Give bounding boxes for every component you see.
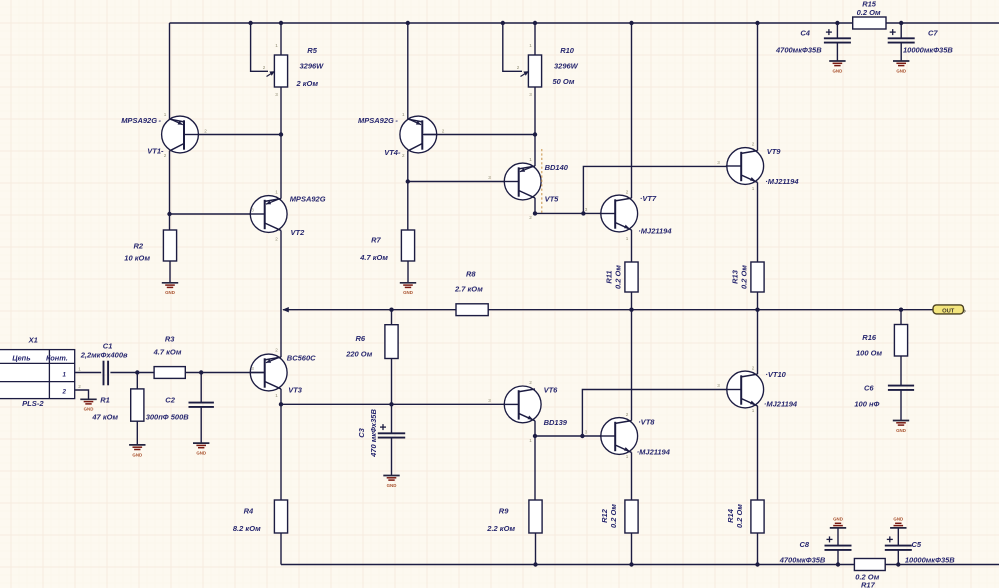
svg-text:470 мкФх35В: 470 мкФх35В bbox=[369, 409, 378, 458]
svg-text:GND: GND bbox=[896, 68, 906, 73]
svg-text:2: 2 bbox=[752, 366, 755, 371]
svg-text:3: 3 bbox=[529, 92, 532, 97]
svg-text:R4: R4 bbox=[244, 507, 254, 516]
label R13 bbox=[731, 265, 749, 289]
svg-text:3: 3 bbox=[585, 430, 588, 435]
svg-text:GND: GND bbox=[833, 68, 843, 73]
svg-text:R3: R3 bbox=[165, 335, 175, 344]
wire C4 to ground bbox=[836, 43, 838, 61]
svg-text:4700мкФ35В: 4700мкФ35В bbox=[775, 46, 822, 55]
junction rail C4 bbox=[835, 21, 839, 25]
svg-text:1: 1 bbox=[402, 112, 405, 117]
capacitor C7 bbox=[888, 29, 915, 42]
ground X1 bbox=[80, 399, 96, 411]
svg-text:OUT: OUT bbox=[942, 308, 955, 314]
svg-text:·MJ21194: ·MJ21194 bbox=[638, 227, 672, 236]
label VT3 bbox=[287, 354, 316, 395]
wire R11 to rail to VT8 bbox=[631, 292, 633, 421]
junction VT6 emitter bbox=[533, 434, 537, 438]
svg-text:1: 1 bbox=[626, 236, 629, 241]
wire branch up to VT9 base bbox=[583, 166, 741, 213]
svg-text:VT4-: VT4- bbox=[384, 148, 401, 157]
ground C5 bbox=[890, 517, 906, 528]
svg-text:C2: C2 bbox=[165, 396, 175, 405]
svg-text:3: 3 bbox=[717, 383, 720, 388]
ground R2 bbox=[162, 283, 178, 295]
svg-text:2.2 кОм: 2.2 кОм bbox=[486, 524, 515, 533]
svg-text:MPSA92G -: MPSA92G - bbox=[358, 116, 398, 125]
svg-text:R2: R2 bbox=[134, 242, 144, 251]
svg-text:4.7 кОм: 4.7 кОм bbox=[359, 253, 388, 262]
junction rail R10 bbox=[533, 21, 537, 25]
label C4 bbox=[775, 29, 822, 55]
svg-text:GND: GND bbox=[196, 451, 206, 456]
wire node to C3 bbox=[391, 404, 393, 433]
svg-text:3296W: 3296W bbox=[300, 62, 325, 71]
wire C8 to rail bbox=[837, 550, 839, 565]
wire VT9 collector to rail bbox=[757, 23, 759, 151]
transistor VT1 bbox=[162, 116, 200, 153]
svg-text:2 кОм: 2 кОм bbox=[296, 79, 319, 88]
svg-text:1: 1 bbox=[164, 112, 167, 117]
wire R1 to ground bbox=[136, 421, 138, 444]
label VT4 bbox=[358, 116, 401, 157]
resistor R14 bbox=[751, 500, 764, 533]
potentiometer R10 bbox=[521, 55, 542, 87]
svg-text:300пФ 500В: 300пФ 500В bbox=[146, 413, 190, 422]
svg-text:1: 1 bbox=[78, 367, 81, 372]
svg-text:R7: R7 bbox=[371, 236, 381, 245]
svg-text:2.7 кОм: 2.7 кОм bbox=[454, 285, 483, 294]
junction rail VT9 bbox=[755, 21, 759, 25]
svg-text:Цепь: Цепь bbox=[12, 354, 30, 363]
wire R9 to bottom rail bbox=[535, 533, 537, 565]
resistor R2 bbox=[163, 230, 176, 261]
wire VT2 emitter to VT3 bbox=[280, 230, 282, 357]
capacitor C2 bbox=[189, 403, 214, 407]
wire ground to C5 bbox=[897, 528, 899, 545]
svg-text:VT9: VT9 bbox=[767, 147, 782, 156]
wire C7 to ground bbox=[900, 43, 902, 61]
junction rail C7 bbox=[899, 21, 903, 25]
junction bottom C8 bbox=[836, 562, 840, 566]
wire C2 to ground bbox=[200, 407, 202, 443]
junction VT5 emitter bbox=[533, 211, 537, 215]
svg-text:2: 2 bbox=[529, 215, 532, 220]
svg-text:R11: R11 bbox=[605, 270, 614, 283]
transistor VT10 bbox=[726, 371, 764, 408]
wire R6 to node bbox=[391, 359, 393, 405]
label C8 bbox=[779, 540, 826, 565]
svg-text:GND: GND bbox=[893, 517, 903, 522]
label X1 bbox=[28, 336, 38, 345]
label R7 bbox=[359, 236, 388, 263]
svg-text:3: 3 bbox=[251, 208, 254, 213]
label connector header bbox=[12, 354, 68, 363]
connector X1 table bbox=[0, 350, 75, 399]
wire output mid rail bbox=[282, 307, 933, 312]
resistor R9 bbox=[529, 500, 542, 533]
wire VT5 emitter row bbox=[535, 212, 615, 214]
svg-text:2: 2 bbox=[626, 190, 629, 195]
svg-text:2: 2 bbox=[204, 129, 207, 134]
resistor R16 bbox=[894, 325, 907, 357]
wire R13 to rail to VT10 bbox=[757, 292, 759, 374]
svg-text:1: 1 bbox=[275, 190, 278, 195]
wire ground to C8 bbox=[837, 528, 839, 545]
label PLS-2 bbox=[22, 399, 44, 408]
label R17 bbox=[855, 573, 879, 588]
label R10 bbox=[553, 46, 579, 86]
svg-text:C8: C8 bbox=[800, 540, 810, 549]
label R15 bbox=[857, 0, 881, 17]
wire X1 pin1 to C1 bbox=[75, 372, 102, 374]
svg-text:R5: R5 bbox=[307, 46, 317, 55]
svg-text:3: 3 bbox=[275, 92, 278, 97]
wire bottom rail bbox=[281, 564, 999, 566]
resistor R17 bbox=[854, 559, 885, 571]
wire C4 top bbox=[836, 23, 838, 38]
wire mid rail to R6 bbox=[391, 310, 393, 325]
svg-text:0.2 Ом: 0.2 Ом bbox=[609, 504, 618, 528]
transistor VT5 bbox=[503, 163, 541, 200]
svg-text:GND: GND bbox=[403, 290, 413, 295]
svg-text:4.7 кОм: 4.7 кОм bbox=[153, 348, 182, 357]
wire C2 top bbox=[200, 373, 202, 403]
transistor VT6 bbox=[503, 386, 541, 423]
svg-text:VT6: VT6 bbox=[544, 386, 559, 395]
wire R5 bottom to VT2 bbox=[280, 87, 282, 199]
junction mid rail E bbox=[629, 308, 633, 312]
wire VT9 emitter to R13 bbox=[757, 182, 759, 262]
wire R5 wiper from rail bbox=[251, 23, 268, 71]
svg-text:0.2 Ом: 0.2 Ом bbox=[735, 504, 744, 528]
svg-text:R8: R8 bbox=[466, 270, 476, 279]
svg-text:3: 3 bbox=[251, 366, 254, 371]
wire R16 to C6 bbox=[900, 356, 902, 386]
svg-text:10000мкФ35В: 10000мкФ35В bbox=[903, 46, 953, 55]
wire R1 top bbox=[136, 373, 138, 389]
svg-text:2: 2 bbox=[275, 237, 278, 242]
svg-text:1: 1 bbox=[63, 372, 67, 379]
wire rail to R16 bbox=[900, 310, 902, 325]
label VT8 bbox=[637, 418, 671, 457]
junction mid rail R16 bbox=[899, 308, 903, 312]
ground C3 bbox=[383, 476, 399, 488]
wire VT4 base to node bbox=[424, 134, 535, 136]
wire VT4 collector to rail bbox=[407, 23, 409, 119]
junction mid rail F bbox=[755, 308, 759, 312]
label R12 bbox=[600, 504, 618, 528]
wire R14 to bottom rail bbox=[757, 533, 759, 565]
junction bottom R12 bbox=[629, 562, 633, 566]
junction VT5 base node bbox=[406, 179, 410, 183]
wire VT7 emitter to R11 bbox=[631, 230, 633, 262]
svg-text:3: 3 bbox=[717, 160, 720, 165]
port OUT flag bbox=[933, 305, 967, 315]
svg-text:BC560C: BC560C bbox=[287, 354, 316, 363]
svg-text:GND: GND bbox=[165, 290, 175, 295]
svg-text:·VT7: ·VT7 bbox=[640, 194, 657, 203]
label VT6 bbox=[544, 386, 568, 428]
label VT7 bbox=[638, 194, 672, 236]
svg-text:GND: GND bbox=[387, 483, 397, 488]
wire R5 top bbox=[280, 23, 282, 55]
svg-text:PLS-2: PLS-2 bbox=[22, 399, 44, 408]
wire R12 to bottom rail bbox=[631, 533, 633, 565]
svg-text:VT1-: VT1- bbox=[147, 147, 164, 156]
ground R1 bbox=[129, 445, 145, 457]
wire C1 to R3 bbox=[110, 372, 154, 374]
transistor VT2 bbox=[249, 196, 287, 233]
label C2 bbox=[146, 396, 190, 422]
svg-text:2: 2 bbox=[164, 153, 167, 158]
svg-text:1: 1 bbox=[752, 408, 755, 413]
svg-text:R6: R6 bbox=[356, 334, 366, 343]
svg-text:2,2мкФх400в: 2,2мкФх400в bbox=[80, 351, 128, 360]
resistor R8 bbox=[456, 304, 488, 316]
svg-text:VT3: VT3 bbox=[288, 386, 303, 395]
wire R3 to VT3 base bbox=[185, 372, 264, 374]
svg-text:2: 2 bbox=[275, 348, 278, 353]
svg-text:C6: C6 bbox=[864, 384, 874, 393]
wire R7 to ground bbox=[407, 261, 409, 283]
wire X1 pin2 to ground bbox=[75, 390, 89, 399]
svg-text:·MJ21194: ·MJ21194 bbox=[637, 448, 671, 457]
svg-text:R17: R17 bbox=[861, 581, 876, 588]
ground C2 bbox=[193, 443, 209, 455]
ground C7 bbox=[893, 61, 909, 73]
svg-text:X1: X1 bbox=[28, 336, 38, 345]
junction C3 tap bbox=[389, 402, 393, 406]
wire V+ top rail bbox=[170, 22, 999, 24]
resistor R13 bbox=[751, 262, 764, 292]
svg-text:·MJ21194: ·MJ21194 bbox=[765, 177, 799, 186]
label R6 bbox=[345, 334, 373, 359]
svg-text:BD140: BD140 bbox=[545, 163, 569, 172]
junction bottom R9 bbox=[533, 562, 537, 566]
ground C4 bbox=[829, 61, 845, 73]
junction C2 tap bbox=[199, 370, 203, 374]
svg-text:GND: GND bbox=[896, 428, 906, 433]
junction driver split bottom bbox=[580, 434, 584, 438]
resistor R6 bbox=[385, 325, 398, 359]
junction rail R5 bbox=[279, 21, 283, 25]
svg-text:MPSA92G: MPSA92G bbox=[290, 195, 326, 204]
wire VT4 emitter down bbox=[407, 151, 409, 230]
svg-text:2: 2 bbox=[752, 142, 755, 147]
svg-text:1: 1 bbox=[529, 157, 532, 162]
svg-text:2: 2 bbox=[78, 384, 81, 389]
wire R10 top bbox=[534, 23, 536, 55]
junction VT2 base node bbox=[167, 212, 171, 216]
svg-text:2: 2 bbox=[442, 129, 445, 134]
svg-text:0.2 Ом: 0.2 Ом bbox=[857, 8, 881, 17]
svg-text:BD139: BD139 bbox=[544, 418, 568, 427]
resistor R12 bbox=[625, 500, 638, 533]
svg-text:R12: R12 bbox=[600, 508, 609, 523]
wire C3 to ground bbox=[391, 438, 393, 476]
svg-text:1: 1 bbox=[275, 43, 278, 48]
label C7 bbox=[903, 29, 953, 55]
svg-text:0.2 Ом: 0.2 Ом bbox=[740, 265, 749, 289]
svg-text:C3: C3 bbox=[357, 427, 366, 437]
svg-text:3: 3 bbox=[585, 207, 588, 212]
label VT1 bbox=[121, 116, 164, 156]
resistor R1 bbox=[131, 389, 144, 421]
svg-text:C4: C4 bbox=[800, 29, 810, 38]
ground R7 bbox=[400, 283, 416, 295]
svg-text:47 кОм: 47 кОм bbox=[91, 413, 118, 422]
label VT9 bbox=[765, 147, 799, 186]
svg-text:C1: C1 bbox=[103, 342, 113, 351]
label R5 bbox=[296, 46, 325, 88]
potentiometer R5 bbox=[267, 55, 288, 87]
wire VT5 emitter down bbox=[534, 198, 536, 214]
wire branch up to VT10 base bbox=[582, 390, 741, 437]
svg-text:R13: R13 bbox=[731, 269, 740, 284]
svg-text:2: 2 bbox=[62, 389, 67, 396]
svg-text:2: 2 bbox=[263, 65, 266, 70]
wire VT6 emitter down bbox=[534, 421, 536, 436]
label C6 bbox=[854, 384, 879, 409]
svg-text:3: 3 bbox=[488, 175, 491, 180]
svg-text:2: 2 bbox=[402, 153, 405, 158]
capacitor C3 bbox=[378, 424, 405, 438]
resistor R3 bbox=[154, 367, 185, 379]
junction bottom R14 bbox=[755, 562, 759, 566]
wire VT2 base row bbox=[170, 213, 265, 215]
svg-text:R1: R1 bbox=[100, 396, 110, 405]
svg-text:R16: R16 bbox=[862, 333, 877, 342]
junction rail R10 wiper bbox=[501, 21, 505, 25]
label R11 bbox=[605, 265, 623, 289]
label C1 bbox=[80, 342, 128, 360]
wire R10 wiper from rail bbox=[503, 23, 522, 71]
svg-text:1: 1 bbox=[275, 393, 278, 398]
svg-text:50 Ом: 50 Ом bbox=[553, 77, 575, 86]
svg-text:GND: GND bbox=[84, 407, 94, 412]
label R1 bbox=[91, 396, 118, 422]
capacitor C8 bbox=[825, 536, 852, 550]
svg-text:2: 2 bbox=[517, 65, 520, 70]
wire VT8 base row bbox=[535, 435, 615, 437]
svg-text:·VT8: ·VT8 bbox=[638, 418, 655, 427]
wire VT1 base to node bbox=[186, 134, 281, 136]
label R8 bbox=[454, 270, 483, 294]
svg-text:1: 1 bbox=[529, 43, 532, 48]
junction VT3 emitter bbox=[279, 402, 283, 406]
svg-text:1: 1 bbox=[529, 438, 532, 443]
wire C5 to rail bbox=[897, 550, 899, 565]
wire node to R4 bbox=[280, 404, 282, 500]
label R9 bbox=[486, 507, 515, 534]
transistor VT8 bbox=[600, 418, 638, 455]
wire VT3 emitter row to VT6 base bbox=[281, 403, 519, 405]
junction rail VT7 bbox=[629, 21, 633, 25]
ground C6 bbox=[893, 421, 909, 433]
svg-text:R10: R10 bbox=[560, 46, 575, 55]
junction R1 tap bbox=[135, 370, 139, 374]
wire VT7 collector to rail bbox=[631, 23, 633, 198]
resistor R15 bbox=[853, 17, 886, 29]
svg-text:100 нФ: 100 нФ bbox=[854, 400, 879, 409]
label C5 bbox=[905, 540, 955, 565]
label R2 bbox=[124, 242, 150, 263]
svg-text:Конт.: Конт. bbox=[46, 354, 68, 363]
svg-text:GND: GND bbox=[132, 452, 142, 457]
svg-text:2: 2 bbox=[529, 380, 532, 385]
junction rail R5 wiper bbox=[248, 21, 252, 25]
svg-text:1: 1 bbox=[752, 186, 755, 191]
resistor R7 bbox=[401, 230, 414, 261]
svg-text:10000мкФ35В: 10000мкФ35В bbox=[905, 556, 955, 565]
junction driver split top bbox=[581, 211, 585, 215]
svg-text:3: 3 bbox=[488, 398, 491, 403]
junction rail VT4 bbox=[406, 21, 410, 25]
svg-text:10 кОм: 10 кОм bbox=[124, 254, 150, 263]
wire node to R9 bbox=[534, 436, 536, 500]
wire VT1 collector to rail bbox=[169, 23, 171, 119]
wire VT1 emitter down bbox=[169, 151, 171, 230]
svg-text:R14: R14 bbox=[726, 508, 735, 523]
capacitor C5 bbox=[885, 536, 912, 550]
svg-text:4700мкФ35В: 4700мкФ35В bbox=[779, 556, 826, 565]
svg-text:100 Ом: 100 Ом bbox=[856, 349, 883, 358]
wire VT3 emitter down bbox=[280, 389, 282, 404]
svg-text:C7: C7 bbox=[928, 29, 938, 38]
label pin numbers bbox=[62, 372, 67, 396]
svg-text:VT5: VT5 bbox=[545, 195, 560, 204]
resistor R4 bbox=[274, 500, 287, 533]
svg-text:2: 2 bbox=[626, 412, 629, 417]
svg-text:C5: C5 bbox=[912, 540, 922, 549]
svg-text:R9: R9 bbox=[499, 507, 509, 516]
label VT5 bbox=[545, 163, 569, 204]
svg-text:VT2: VT2 bbox=[291, 228, 306, 237]
svg-text:220 Ом: 220 Ом bbox=[345, 350, 373, 359]
junction mid rail R6 bbox=[389, 308, 393, 312]
label R14 bbox=[726, 504, 744, 528]
junction bottom C5 bbox=[896, 562, 900, 566]
transistor VT7 bbox=[600, 195, 638, 232]
wire C6 to ground bbox=[900, 390, 902, 420]
capacitor C1 bbox=[104, 361, 109, 386]
svg-text:3296W: 3296W bbox=[554, 62, 579, 71]
wire C7 top bbox=[900, 23, 902, 38]
capacitor C6 bbox=[888, 386, 914, 390]
capacitor C4 bbox=[824, 29, 851, 42]
label C3 bbox=[357, 409, 378, 458]
svg-text:1: 1 bbox=[626, 454, 629, 459]
wire R2 to ground bbox=[169, 261, 171, 283]
junction VT1 base node bbox=[279, 132, 283, 136]
svg-text:MPSA92G -: MPSA92G - bbox=[121, 116, 161, 125]
svg-text:8.2 кОм: 8.2 кОм bbox=[233, 524, 261, 533]
transistor VT9 bbox=[726, 148, 764, 185]
label VT10 bbox=[764, 370, 798, 409]
wire R4 to bottom rail bbox=[280, 533, 282, 565]
label R16 bbox=[856, 333, 883, 358]
label VT2 bbox=[290, 195, 326, 238]
resistor R11 bbox=[625, 262, 638, 292]
svg-text:0.2 Ом: 0.2 Ом bbox=[614, 265, 623, 289]
label R4 bbox=[233, 507, 261, 534]
wire VT10 emitter to R14 bbox=[757, 406, 759, 500]
junction VT4 base node bbox=[533, 132, 537, 136]
wire VT5 base row bbox=[408, 181, 519, 183]
highlight dashed net mark bbox=[541, 149, 543, 215]
